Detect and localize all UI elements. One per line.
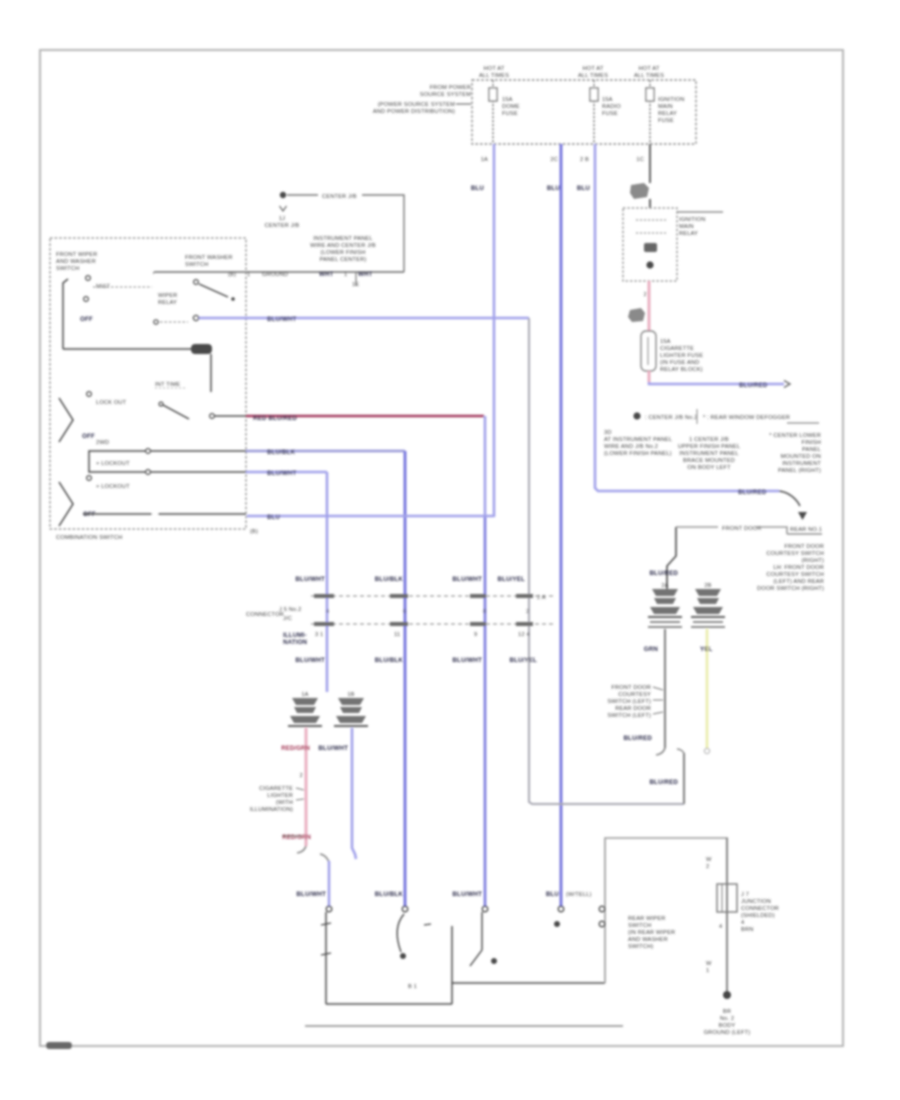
svg-text:1A: 1A: [301, 692, 308, 698]
svg-text:LIGHTER FUSE: LIGHTER FUSE: [660, 353, 703, 359]
svg-text:(W/TELL): (W/TELL): [566, 892, 592, 898]
svg-text:(RIGHT): (RIGHT): [801, 558, 824, 564]
svg-text:AND WASHER: AND WASHER: [56, 259, 96, 265]
svg-text:LIGHTER: LIGHTER: [267, 793, 293, 799]
continuation arrow after BLU y490: [779, 491, 822, 534]
svg-text:BLU: BLU: [267, 514, 281, 521]
wire BLK below stack CN3: [644, 629, 665, 748]
svg-text:COURTESY SWITCH: COURTESY SWITCH: [766, 551, 824, 557]
svg-text:ALL TIMES: ALL TIMES: [578, 73, 608, 79]
wire label BLU/RED at x665 lower: [623, 735, 665, 755]
svg-text:3 1: 3 1: [315, 632, 323, 638]
connector stack CN2: [334, 692, 368, 726]
wire motor line y349: [63, 344, 212, 392]
svg-text:WIPER: WIPER: [158, 293, 177, 299]
svg-text:2 B: 2 B: [580, 157, 589, 163]
svg-text:2A: 2A: [661, 583, 668, 589]
svg-text:BLU/BLK: BLU/BLK: [375, 576, 404, 583]
text block B (connector note): [678, 437, 740, 471]
svg-text:12 4: 12 4: [518, 632, 530, 638]
connector C1 on x727: [717, 884, 737, 930]
center J/B box outline: [287, 194, 404, 272]
door courtesy switch text block: [757, 544, 824, 592]
svg-text:SWITCH (LEFT): SWITCH (LEFT): [607, 713, 651, 719]
wire BLU resume x329 to bottom: [320, 854, 329, 906]
wire BLU/WHT y472 horizontal: [150, 470, 327, 477]
svg-text:FRONT WIPER: FRONT WIPER: [56, 252, 97, 258]
svg-text:MOUNTED ON: MOUNTED ON: [781, 454, 821, 460]
switch SW3 (washer lower): [59, 476, 130, 526]
svg-text:FUSE: FUSE: [602, 111, 618, 117]
svg-text:ON BODY LEFT: ON BODY LEFT: [687, 465, 731, 471]
svg-text:WHT: WHT: [319, 271, 334, 278]
svg-text:AND POWER DISTRIBUTION): AND POWER DISTRIBUTION): [373, 109, 455, 115]
svg-text:BODY: BODY: [719, 1023, 736, 1029]
wire labels above band: [295, 576, 525, 583]
terminal T1: [326, 906, 332, 912]
svg-text:RADIO: RADIO: [602, 104, 621, 110]
long separator line y1026: [305, 1025, 623, 1027]
svg-text:BLU/WHT: BLU/WHT: [296, 891, 326, 898]
svg-text:PANEL (RIGHT): PANEL (RIGHT): [778, 468, 821, 474]
svg-text:2WD: 2WD: [96, 440, 109, 446]
svg-text:OFF: OFF: [82, 433, 95, 440]
svg-text:BLU/YEL: BLU/YEL: [509, 657, 537, 664]
svg-text:YEL: YEL: [700, 646, 713, 653]
pin labels under fuse box: [481, 157, 644, 163]
svg-text:BLU/RED: BLU/RED: [739, 382, 768, 389]
connector stack CN1: [288, 692, 322, 726]
switch leg under T1: [321, 912, 331, 1004]
pin stub on y272 wire: [352, 272, 359, 288]
ground label BR: [704, 1009, 751, 1036]
wire color labels below fuse box: [471, 185, 591, 192]
svg-text:BLU: BLU: [471, 185, 485, 192]
terminal T4: [558, 906, 564, 912]
svg-text:(LOWER FINISH PANEL): (LOWER FINISH PANEL): [604, 451, 672, 457]
svg-text:COURTESY: COURTESY: [618, 692, 651, 698]
fuse CIG (vertical fuse symbol): [641, 331, 703, 373]
svg-text:COMBINATION SWITCH: COMBINATION SWITCH: [56, 535, 122, 541]
svg-text:REAR NO.1: REAR NO.1: [790, 527, 822, 533]
svg-text:4: 4: [719, 924, 722, 930]
label HOT AT ALL TIMES (fuse 1): [479, 66, 509, 79]
svg-text:MAIN: MAIN: [658, 104, 673, 110]
svg-text:CONNECTOR: CONNECTOR: [741, 906, 779, 912]
svg-text:2: 2: [706, 864, 709, 870]
svg-text:GROUND: GROUND: [262, 272, 288, 278]
rear box outline: [605, 838, 728, 983]
svg-text:BLU: BLU: [546, 891, 560, 898]
svg-text:BRACE MOUNTED: BRACE MOUNTED: [683, 458, 735, 464]
svg-text:1: 1: [344, 272, 347, 278]
svg-text:BLU/WHT: BLU/WHT: [295, 657, 325, 664]
svg-text:W: W: [706, 961, 712, 967]
svg-text:(POWER SOURCE SYSTEM: (POWER SOURCE SYSTEM: [378, 102, 455, 108]
switch SW1 front wiper: [63, 276, 152, 349]
rear wiper switch text: [628, 916, 675, 950]
svg-text:DOOR SWITCH (RIGHT): DOOR SWITCH (RIGHT): [757, 586, 824, 592]
svg-text:HOT AT: HOT AT: [583, 66, 604, 72]
switch arm SW1b (washer): [194, 280, 235, 301]
svg-text:1B: 1B: [347, 692, 354, 698]
svg-text:(IN REAR WIPER: (IN REAR WIPER: [628, 930, 675, 936]
svg-text:1E: 1E: [352, 282, 359, 288]
svg-text:1 CENTER J/B: 1 CENTER J/B: [689, 437, 729, 443]
svg-text:MAIN: MAIN: [679, 224, 694, 230]
svg-text:BLU/BLK: BLU/BLK: [375, 657, 404, 664]
svg-text:PANEL: PANEL: [802, 447, 821, 453]
svg-text:REAR DOOR: REAR DOOR: [615, 706, 651, 712]
wire to J/B horizontal y272: [154, 271, 404, 278]
svg-text:LH: FRONT DOOR: LH: FRONT DOOR: [773, 565, 824, 571]
svg-text:NATION: NATION: [283, 639, 308, 646]
label HOT AT ALL TIMES (fuse 2): [578, 66, 608, 79]
svg-text:IGNITION: IGNITION: [679, 217, 705, 223]
wire BLU/WHT y317 horizontal: [193, 315, 529, 323]
relay label: [677, 212, 723, 237]
svg-text:BLU/WHT: BLU/WHT: [267, 316, 297, 323]
svg-text:FUSE: FUSE: [502, 111, 518, 117]
svg-text:3D: 3D: [604, 430, 612, 436]
svg-text:ILLUMINATION): ILLUMINATION): [250, 807, 293, 813]
svg-text:SWITCH): SWITCH): [628, 944, 653, 950]
svg-text:15A: 15A: [660, 339, 671, 345]
wire PNK below relay: [644, 281, 649, 331]
svg-text:RED/GRN: RED/GRN: [281, 746, 310, 752]
wire YEL below stack CN4: [700, 629, 713, 754]
label HOT AT ALL TIMES (fuse 3): [634, 66, 664, 79]
svg-text:(WITH: (WITH: [276, 800, 293, 806]
label FRONT WIPER SWITCH: [56, 252, 97, 272]
label COMBINATION SWITCH: [56, 535, 122, 541]
bracket contacts (2 terminals): [89, 440, 150, 474]
svg-text:DOME: DOME: [502, 104, 520, 110]
svg-text:4: 4: [741, 920, 744, 926]
svg-text:BR: BR: [723, 1009, 731, 1015]
svg-text:CIGARETTE: CIGARETTE: [259, 786, 293, 792]
door courtesy label block: [607, 685, 663, 719]
svg-text:+ LOCKOUT: + LOCKOUT: [96, 461, 130, 467]
svg-text:FRONT WASHER: FRONT WASHER: [185, 255, 233, 261]
wire BLU horizontal y384: [649, 381, 790, 390]
fuse F1 DOME: [489, 80, 520, 144]
svg-text:15A: 15A: [502, 97, 513, 103]
svg-text:OFF: OFF: [80, 316, 93, 323]
svg-text:BLU/RED: BLU/RED: [649, 779, 678, 786]
wire RED y416 horizontal: [214, 415, 484, 422]
svg-text:FRONT DOOR: FRONT DOOR: [611, 685, 651, 691]
svg-text:SWITCH (LEFT): SWITCH (LEFT): [607, 699, 651, 705]
wire BLU/BLK y451 horizontal: [148, 449, 405, 456]
combination switch dashed box: [50, 238, 246, 529]
terminal T3: [482, 906, 488, 912]
wire BLK x684 from connector to y804: [649, 749, 684, 804]
svg-text:ALL TIMES: ALL TIMES: [634, 73, 664, 79]
wire BLU vertical x485 (from red): [484, 416, 487, 906]
node 1J dot: [280, 192, 286, 198]
svg-text:BLU/BLK: BLU/BLK: [375, 891, 404, 898]
svg-text:JUNCTION: JUNCTION: [741, 899, 771, 905]
svg-text:GROUND (LEFT): GROUND (LEFT): [704, 1030, 751, 1036]
svg-text:RED BLU/RED: RED BLU/RED: [253, 415, 297, 422]
label FRONT WASHER SWITCH: [153, 255, 236, 278]
svg-text:SOURCE SYSTEM: SOURCE SYSTEM: [420, 92, 471, 98]
svg-text:J 7: J 7: [741, 892, 749, 898]
connector stack CN4: [691, 583, 725, 627]
svg-text:1J: 1J: [279, 216, 285, 222]
svg-text:RELAY: RELAY: [158, 300, 177, 306]
svg-text:BLU/WHT: BLU/WHT: [295, 576, 325, 583]
text block C (connector note): [769, 433, 821, 474]
junction connector dashed band: [311, 594, 553, 626]
door switch box top edge: [676, 526, 787, 534]
svg-text:REAR WIPER: REAR WIPER: [628, 916, 666, 922]
svg-text:INSTRUMENT PANEL: INSTRUMENT PANEL: [679, 451, 738, 457]
cigarette lighter component label: [250, 773, 304, 836]
connector blob on pink wire: [628, 308, 645, 322]
svg-text:BLU: BLU: [577, 185, 591, 192]
svg-text:2 A: 2 A: [537, 595, 546, 601]
svg-text:BLU/WHT: BLU/WHT: [452, 891, 482, 898]
svg-text:BLU/WHT: BLU/WHT: [452, 576, 482, 583]
svg-text:4: 4: [326, 609, 329, 615]
terminals on box edge: [599, 906, 605, 927]
ground node dot: [723, 991, 731, 999]
svg-text:WIRE AND J/B No.2: WIRE AND J/B No.2: [604, 444, 658, 450]
connector blob on fuse3 wire: [630, 183, 649, 199]
bottom switch wiring: [326, 926, 605, 1004]
svg-text:(SHIELDED): (SHIELDED): [741, 913, 775, 919]
wire BLU fuse1 vertical x494: [493, 144, 496, 517]
text block A (connector note): [604, 430, 672, 457]
svg-text:CIGARETTE: CIGARETTE: [660, 346, 694, 352]
ground symbol under 1J dot: [265, 206, 300, 229]
svg-text:UPPER FINISH PANEL: UPPER FINISH PANEL: [678, 444, 740, 450]
page number mark bottom left: [46, 1042, 72, 1049]
switch under T3: [470, 912, 497, 966]
svg-text:FINISH: FINISH: [801, 440, 821, 446]
svg-text:INSTRUMENT: INSTRUMENT: [782, 461, 821, 467]
svg-text:FROM POWER: FROM POWER: [430, 85, 471, 91]
svg-text:INT TIME: INT TIME: [155, 382, 180, 388]
svg-text:BLU/BLK: BLU/BLK: [267, 449, 296, 456]
connector stack CN3: [648, 583, 682, 627]
wire BLU below stack CN2: [318, 728, 356, 859]
fuse F2 RADIO: [590, 80, 621, 144]
connector C1 label: [741, 892, 779, 933]
wire PNK below stack CN1: [281, 728, 311, 846]
svg-text:* CENTER LOWER: * CENTER LOWER: [769, 433, 821, 439]
label DRIVER SIDE J/B: [310, 236, 376, 263]
junction connector label: [246, 607, 307, 639]
wire PNK below fuse to corner: [648, 371, 651, 382]
svg-text:IGNITION: IGNITION: [658, 97, 684, 103]
label INT TIME: [155, 382, 186, 388]
wire labels below band: [283, 639, 537, 664]
wire BLK from box corner to stack: [649, 527, 678, 590]
svg-text:1: 1: [247, 272, 250, 278]
svg-text:1: 1: [706, 968, 709, 974]
junction block J/B dashed box: [472, 80, 696, 144]
svg-text:(LOWER FINISH: (LOWER FINISH: [321, 250, 366, 256]
svg-text:BLU/RED: BLU/RED: [623, 735, 652, 742]
legend junction dot note: [633, 409, 819, 424]
svg-text:1C: 1C: [636, 157, 644, 163]
svg-text:2: 2: [300, 773, 303, 779]
svg-text:SWITCH: SWITCH: [185, 262, 208, 268]
svg-text:ILLUMI-: ILLUMI-: [283, 632, 307, 639]
wire BLU fuse2 vertical x595 and horizontal y490: [595, 144, 779, 496]
wire BLU y516 horizontal: [247, 514, 494, 535]
svg-text:WIRE AND CENTER J/B: WIRE AND CENTER J/B: [310, 243, 376, 249]
wire BLU strong vertical x561: [560, 144, 563, 906]
svg-text:(LEFT) AND REAR: (LEFT) AND REAR: [773, 579, 824, 585]
wire BLU strong vertical x405: [404, 451, 407, 906]
fuse F3 IGNITION: [646, 80, 684, 144]
svg-text:J/C: J/C: [283, 616, 292, 622]
svg-text:AND WASHER: AND WASHER: [628, 937, 668, 943]
pink wire end hook: [297, 846, 306, 853]
svg-text:INSTRUMENT PANEL: INSTRUMENT PANEL: [313, 236, 372, 242]
svg-text:FUSE: FUSE: [658, 118, 674, 124]
svg-text:BRN: BRN: [741, 927, 753, 933]
contact dot under T4: [554, 921, 560, 927]
svg-text:RELAY BLOCK): RELAY BLOCK): [660, 367, 703, 373]
svg-text:WHT: WHT: [358, 271, 373, 278]
svg-text:LOCK OUT: LOCK OUT: [96, 400, 127, 406]
svg-text:1A: 1A: [481, 157, 488, 163]
svg-text:(B): (B): [250, 529, 258, 535]
switch SW2 (intermittent): [59, 392, 214, 442]
label FROM POWER SOURCE SYSTEM: [373, 85, 471, 115]
svg-text:FRONT DOOR: FRONT DOOR: [784, 544, 824, 550]
svg-text:2: 2: [644, 292, 647, 298]
relay box: [623, 208, 677, 281]
svg-text:: CENTER J/B No.2: : CENTER J/B No.2: [645, 415, 698, 421]
wire internal y514: [83, 513, 246, 515]
svg-text:W: W: [706, 857, 712, 863]
svg-text:PANEL CENTER): PANEL CENTER): [320, 257, 367, 263]
svg-text:HOT AT: HOT AT: [639, 66, 660, 72]
svg-text:9: 9: [474, 632, 477, 638]
wire BLU vertical x327: [326, 472, 329, 692]
svg-text:COURTESY SWITCH: COURTESY SWITCH: [766, 572, 824, 578]
svg-text:SWITCH: SWITCH: [56, 266, 79, 272]
svg-text:2B: 2B: [704, 583, 711, 589]
svg-text:BLU/YEL: BLU/YEL: [497, 576, 525, 583]
svg-text:15A: 15A: [602, 97, 613, 103]
svg-text:2C: 2C: [550, 157, 558, 163]
pin ticks at band: [315, 609, 530, 638]
svg-text:CENTER J/B: CENTER J/B: [265, 223, 300, 229]
svg-text:SWITCH: SWITCH: [628, 923, 651, 929]
svg-text:RELAY: RELAY: [679, 231, 698, 237]
svg-text:CENTER J/B: CENTER J/B: [322, 194, 357, 200]
svg-text:+ LOCKOUT: + LOCKOUT: [96, 484, 130, 490]
svg-text:HOT AT: HOT AT: [484, 66, 505, 72]
switch arc under T2: [397, 914, 431, 959]
pin label lower x727: [706, 961, 712, 974]
svg-text:6: 6: [403, 609, 406, 615]
wire BLK fuse3 vertical x650: [649, 144, 651, 208]
svg-text:2: 2: [526, 609, 529, 615]
label WIPER RELAY: [154, 293, 188, 324]
svg-text:BLU/RED: BLU/RED: [649, 570, 678, 577]
svg-text:GRN: GRN: [644, 646, 659, 653]
svg-text:(B): (B): [228, 272, 236, 278]
wire BLK x727 inside rear box: [706, 838, 727, 993]
svg-text:RELAY: RELAY: [658, 111, 677, 117]
svg-text:BLU: BLU: [547, 185, 561, 192]
terminal T2: [402, 906, 408, 912]
svg-text:* : REAR WINDOW DEFOGGER: * : REAR WINDOW DEFOGGER: [703, 415, 790, 421]
svg-text:BLU/WHT: BLU/WHT: [452, 657, 482, 664]
svg-text:11: 11: [394, 632, 400, 638]
svg-text:ALL TIMES: ALL TIMES: [479, 73, 509, 79]
svg-text:BLU/WHT: BLU/WHT: [267, 470, 297, 477]
svg-text:(IN FUSE AND: (IN FUSE AND: [660, 360, 699, 366]
svg-text:BLU/RED: BLU/RED: [738, 489, 767, 496]
svg-text:BLU/WHT: BLU/WHT: [318, 745, 348, 752]
svg-text:8: 8: [483, 609, 486, 615]
svg-text:B 1: B 1: [408, 984, 417, 990]
svg-text:CONNECTOR: CONNECTOR: [246, 612, 284, 618]
wire GRY vertical x528: [529, 318, 684, 804]
wire labels above terminals: [296, 891, 591, 898]
svg-text:No. 2: No. 2: [720, 1016, 734, 1022]
svg-text:AT INSTRUMENT PANEL: AT INSTRUMENT PANEL: [604, 437, 672, 443]
